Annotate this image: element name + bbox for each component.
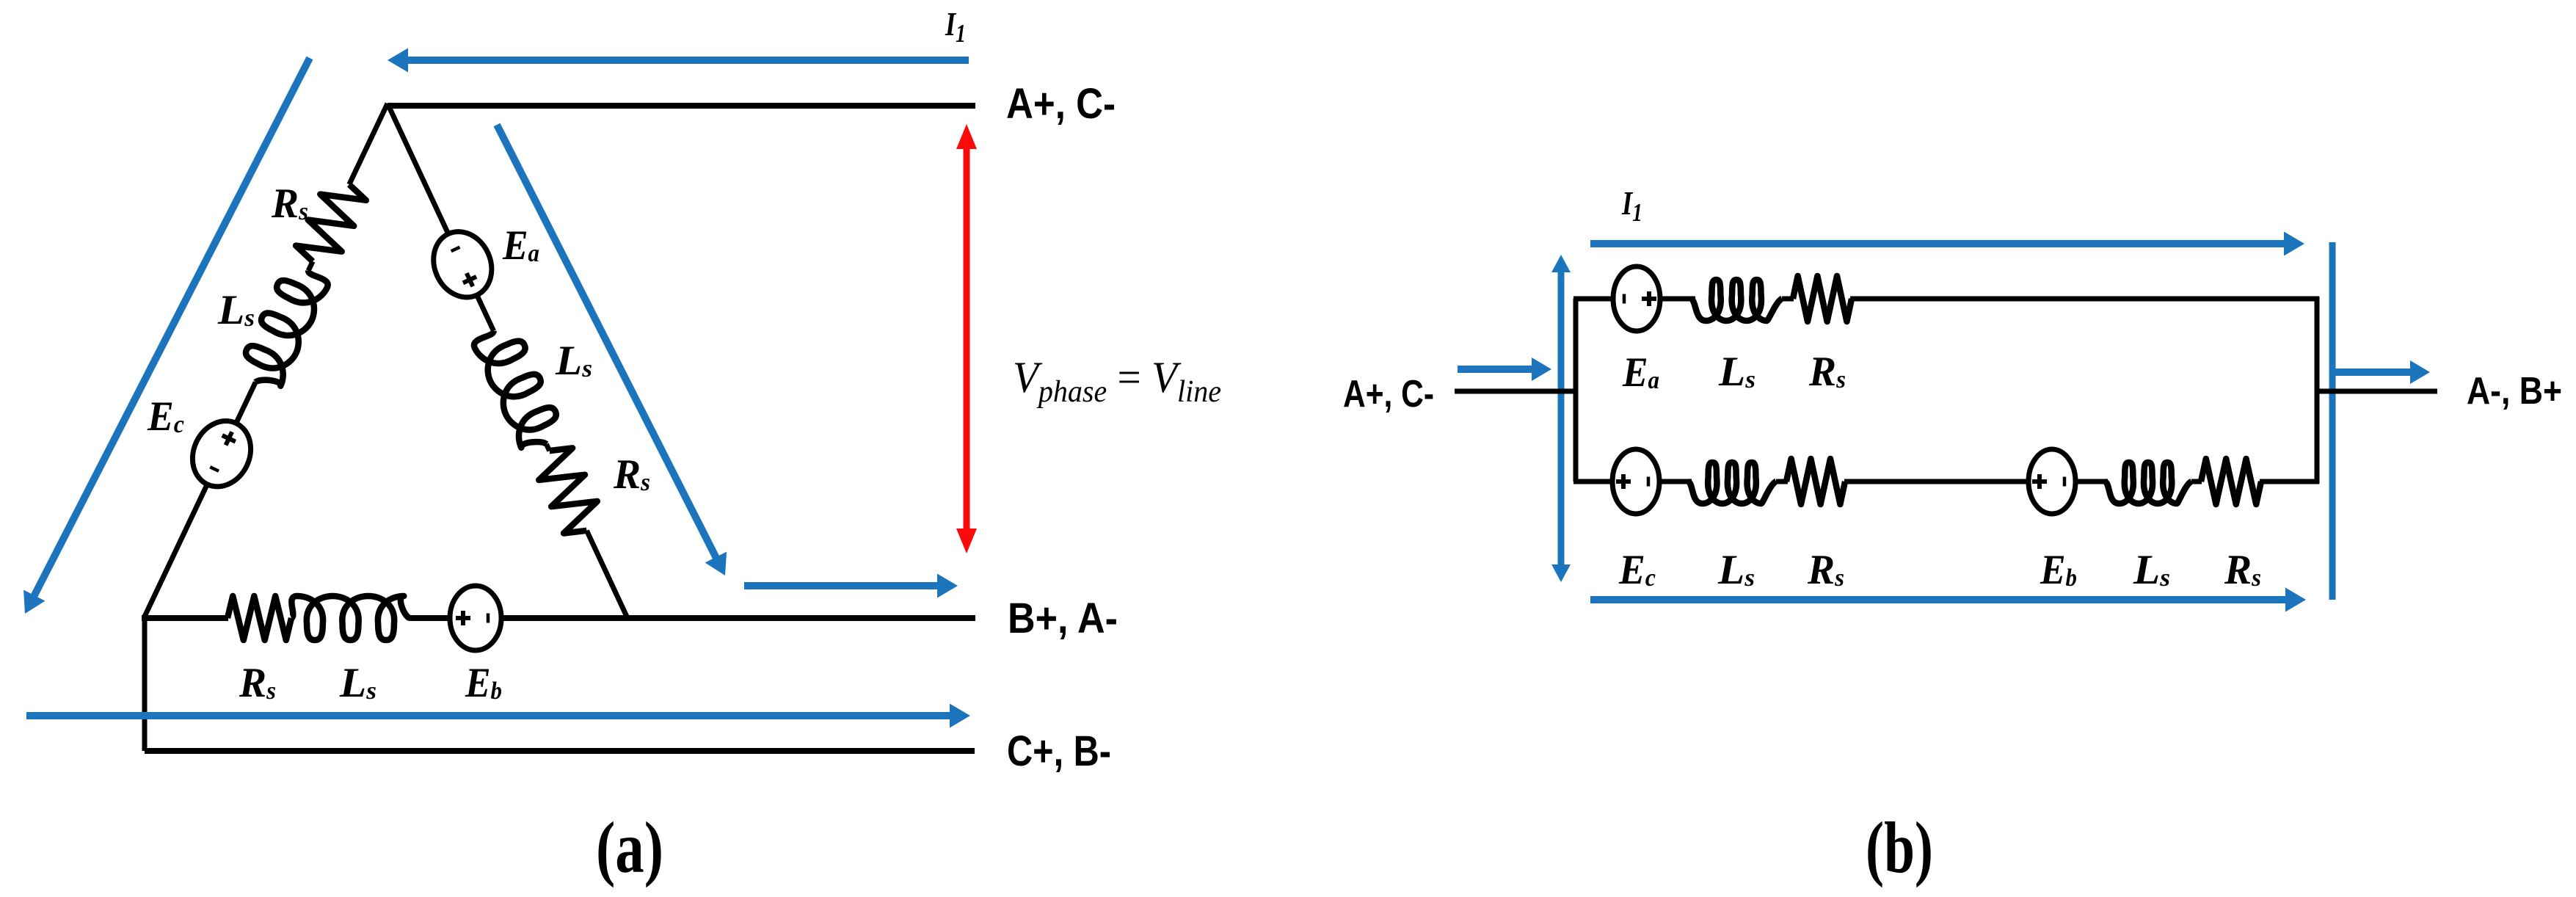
svg-text:(a): (a) <box>596 807 663 888</box>
wire: bottom node line B+,A- (right part) <box>501 615 975 621</box>
svg-text:A-, B+: A-, B+ <box>2467 370 2562 413</box>
inductor Ls (right leg) <box>474 331 556 448</box>
voltage line (right vertical, fig b) <box>2329 242 2336 600</box>
voltage arrow Vphase (red, double-headed) <box>964 148 970 530</box>
wire: Ea to Ls (fig b top) <box>1660 297 1695 302</box>
svg-text:A+, C-: A+, C- <box>1006 80 1116 128</box>
svg-text:Ec: Ec <box>147 393 184 440</box>
wire: bottom node line B+,A- (left part) <box>142 615 228 621</box>
wire: Rs to Eb (fig b) <box>1844 479 2029 484</box>
wire: apex to Ea (right leg) <box>388 103 448 233</box>
svg-text:Rs: Rs <box>2224 547 2261 593</box>
svg-text:C+, B-: C+, B- <box>1007 727 1111 775</box>
svg-text:Eb: Eb <box>2040 547 2077 593</box>
wire: bottom node line between Ls and Eb <box>409 615 450 621</box>
svg-text:Ls: Ls <box>2133 547 2170 593</box>
wire: left vertical drop from corner <box>142 618 148 751</box>
current arrow I1 (top, leftwards) <box>407 57 969 64</box>
wire: left vertical of loop (fig b) <box>1573 299 1579 482</box>
svg-text:(b): (b) <box>1866 807 1933 888</box>
wire: input lead A+,C- <box>1455 389 1576 394</box>
svg-text:I1: I1 <box>945 5 966 48</box>
wire: Ls-Rs stub (fig b bottom-right) <box>2191 479 2202 484</box>
voltage source Ea (fig b) <box>1613 266 1660 331</box>
wire: Rs to Ls (left leg) <box>308 261 313 271</box>
svg-text:Eb: Eb <box>465 660 502 706</box>
voltage source Eb (fig b) <box>2029 449 2075 514</box>
svg-text:Ec: Ec <box>1618 547 1656 593</box>
wire: bottom-left corner to Ec (fig b) <box>1573 479 1612 484</box>
resistor Rs (bottom edge) <box>228 596 291 640</box>
wire: lowest node line C+,B- <box>145 748 975 754</box>
svg-text:I1: I1 <box>1621 184 1642 227</box>
wire: apex to Rs (left leg) <box>349 103 388 184</box>
svg-text:Ls: Ls <box>1718 349 1755 395</box>
svg-text:Ls: Ls <box>339 660 376 706</box>
svg-text:Ls: Ls <box>555 338 592 384</box>
wire: Rs to right corner (fig b bottom) <box>2260 479 2319 484</box>
wire: top node line A+,C- <box>388 103 975 109</box>
svg-text:Ea: Ea <box>1622 349 1659 396</box>
svg-text:Rs: Rs <box>1807 547 1844 593</box>
inductor Ls (fig b top) <box>1691 280 1782 321</box>
wire: right vertical of loop (fig b) <box>2315 297 2320 484</box>
svg-text:Ea: Ea <box>502 222 539 269</box>
svg-text:Rs: Rs <box>613 451 650 498</box>
wire: Eb to Ls (fig b) <box>2075 479 2108 484</box>
wire: Ls-Rs stub (fig b bottom-left) <box>1776 479 1788 484</box>
resistor Rs (fig b bottom-right) <box>2201 459 2261 504</box>
resistor Rs (right leg) <box>539 448 597 533</box>
voltage source Ec <box>182 411 261 496</box>
current arrow (inner diagonal along right leg) <box>497 125 716 559</box>
inductor Ls (fig b bottom-right) <box>2105 462 2191 504</box>
wire: Rs to right corner (fig b top) <box>1850 297 2319 302</box>
current arrow (middle horizontal) <box>744 582 939 589</box>
resistor Rs (fig b bottom-left) <box>1786 459 1845 504</box>
wire: top-left corner to Ea (fig b) <box>1573 297 1613 302</box>
wire: Ea to Ls (right leg) <box>477 296 493 331</box>
current arrow (input, fig b) <box>1458 366 1533 373</box>
wire: Ls to Ec (left leg) <box>236 382 255 423</box>
current arrow I1 (fig b) <box>1590 240 2285 247</box>
wire: Ls to Rs (right leg) <box>546 444 549 451</box>
svg-text:Rs: Rs <box>239 660 276 706</box>
wire: Ec to bottom-left corner <box>144 485 207 618</box>
inductor Ls (fig b bottom-left) <box>1688 462 1776 504</box>
wire: output lead A-,B+ <box>2317 389 2437 394</box>
current arrow (output, fig b) <box>2334 368 2412 376</box>
wire: Ls-Rs stub (fig b top) <box>1782 297 1794 302</box>
svg-text:B+, A-: B+, A- <box>1008 595 1118 642</box>
current arrow (bottom, fig b) <box>1590 596 2287 603</box>
svg-text:Rs: Rs <box>1808 349 1846 395</box>
svg-text:Vphase = Vline: Vphase = Vline <box>1013 353 1221 409</box>
voltage source Ec (fig b) <box>1612 449 1659 514</box>
inductor Ls (left leg) <box>246 271 328 386</box>
svg-text:Ls: Ls <box>217 287 255 333</box>
resistor Rs (fig b top) <box>1793 276 1852 322</box>
svg-text:Ls: Ls <box>1717 547 1755 593</box>
current arrow (bottom long) <box>26 712 951 719</box>
inductor Ls (bottom edge) <box>291 596 410 640</box>
resistor Rs (left leg) <box>296 184 366 261</box>
svg-text:Rs: Rs <box>271 181 308 227</box>
voltage source Eb <box>450 586 501 650</box>
voltage source Ea <box>423 222 502 307</box>
voltage arrow (left, double-headed, fig b) <box>1558 271 1565 566</box>
current arrow (left outer diagonal) <box>34 58 310 597</box>
svg-text:A+, C-: A+, C- <box>1343 373 1434 415</box>
wire: Rs to bottom line (right leg) <box>586 531 627 618</box>
wire: Ec to Ls (fig b bottom) <box>1659 479 1692 484</box>
